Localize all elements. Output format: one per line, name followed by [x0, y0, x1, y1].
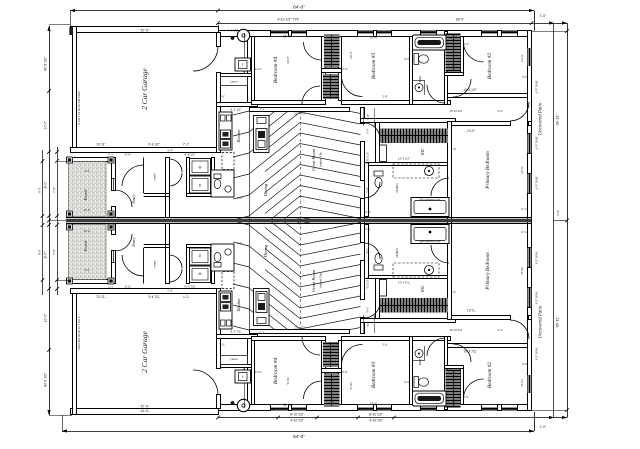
- svg-text:4'-10 1/2": 4'-10 1/2": [365, 152, 369, 164]
- svg-text:Entry: Entry: [131, 194, 136, 204]
- svg-text:Vaulted Clg: Vaulted Clg: [319, 273, 323, 288]
- svg-text:WIC: WIC: [420, 285, 425, 293]
- windows: right wall primary bedroom: [527, 133, 532, 153]
- top dim mid tick: [216, 9, 220, 13]
- wall: bath left: [410, 37, 413, 105]
- windows: top wall: [270, 31, 288, 37]
- wall: bedroom4 left: [252, 37, 255, 105]
- svg-text:Porch: Porch: [83, 240, 88, 253]
- svg-text:Uncovered Patio: Uncovered Patio: [539, 102, 544, 135]
- dryer: [190, 176, 211, 193]
- svg-text:6'-0" 5040: 6'-0" 5040: [535, 291, 539, 304]
- svg-text:9'-2 1/2": 9'-2 1/2": [231, 107, 242, 111]
- door arc: coats closet: [122, 165, 144, 186]
- svg-text:2 Car Garage: 2 Car Garage: [140, 331, 149, 373]
- wall: primary bedroom top: [449, 122, 511, 126]
- refrigerator dashed: [222, 153, 234, 170]
- svg-text:2'-8": 2'-8": [365, 187, 369, 193]
- wall: great room right lower: [361, 199, 365, 220]
- bottom dimension line 64ft: [62, 431, 534, 433]
- svg-text:1'-0": 1'-0": [540, 425, 546, 429]
- wall: great room top: [250, 108, 350, 112]
- wall: laundry bottom: [187, 194, 215, 197]
- svg-text:10'-11": 10'-11": [96, 143, 106, 147]
- svg-text:12'-0": 12'-0": [520, 166, 524, 174]
- svg-text:Dining: Dining: [263, 183, 268, 197]
- svg-text:2'-6": 2'-6": [342, 67, 348, 71]
- svg-text:6'-0" 5040: 6'-0" 5040: [535, 347, 539, 360]
- svg-text:8'-10 1/2": 8'-10 1/2": [369, 412, 382, 416]
- svg-text:3'-1": 3'-1": [259, 107, 265, 111]
- door arc: bedroom4 entry: [302, 86, 320, 104]
- wall: hall north (bed3-bath-bed2 bottom): [342, 101, 451, 105]
- svg-text:Uncovered Patio: Uncovered Patio: [539, 305, 544, 338]
- svg-text:57'-0": 57'-0": [141, 28, 150, 32]
- primary shower unit: [411, 198, 449, 217]
- porch post bottom-right: [108, 211, 114, 217]
- svg-text:Bath: Bath: [418, 75, 422, 82]
- svg-text:10'-4": 10'-4": [349, 51, 353, 59]
- svg-text:1'-0": 1'-0": [451, 147, 457, 151]
- svg-text:6'-0" 5040: 6'-0" 5040: [535, 80, 539, 93]
- svg-text:Entry: Entry: [131, 237, 136, 247]
- kitchen counter left with sink: [219, 112, 232, 150]
- wall: bath/closet divider: [445, 32, 448, 105]
- door arc: hall bath: [427, 85, 445, 103]
- svg-text:5'-4": 5'-4": [237, 196, 243, 200]
- svg-text:64'-0": 64'-0": [293, 434, 305, 439]
- svg-text:40'-5 1/2": 40'-5 1/2": [44, 56, 48, 71]
- porch post top-left: [67, 157, 73, 163]
- svg-text:4'-0": 4'-0": [556, 210, 560, 216]
- svg-text:3'-0": 3'-0": [366, 114, 370, 120]
- party wall between units: [66, 219, 532, 223]
- svg-text:40'-5 1/2": 40'-5 1/2": [44, 372, 48, 387]
- door arc: primary bath inner: [431, 178, 449, 196]
- wall: porch/entry divider upper: [112, 158, 116, 191]
- svg-text:Bedroom #3: Bedroom #3: [371, 53, 377, 80]
- right dimension line outer: [567, 23, 569, 418]
- svg-text:10'-0": 10'-0": [44, 120, 48, 129]
- svg-text:Bedroom #2: Bedroom #2: [487, 362, 493, 389]
- svg-text:2'-8": 2'-8": [382, 95, 388, 99]
- wall: laundry right: [212, 158, 215, 197]
- porch post bottom-left: [67, 211, 73, 217]
- closet rod hatch: bedroom4 closet: [324, 35, 340, 68]
- svg-text:8'-0": 8'-0": [38, 249, 42, 255]
- wall: linen closet: [221, 77, 248, 86]
- svg-text:2'-0": 2'-0": [219, 95, 225, 99]
- svg-text:16'-10 1/2": 16'-10 1/2": [449, 109, 462, 113]
- left dimension line outer: [49, 26, 51, 415]
- svg-text:Kitchen: Kitchen: [236, 298, 241, 312]
- svg-text:18'-0": 18'-0": [456, 18, 465, 22]
- svg-text:3'-4 1/2": 3'-4 1/2": [148, 143, 160, 147]
- great room floor/ceiling hatch: [233, 60, 361, 284]
- door arc: entry front door: [115, 190, 132, 207]
- wall: bed2 closet bottom: [445, 73, 464, 76]
- wall: building right exterior: [528, 31, 532, 221]
- water heater: [237, 29, 249, 41]
- porch slab with concrete stipple: [69, 162, 107, 217]
- svg-text:2'-6": 2'-6": [365, 128, 369, 134]
- svg-text:21'-4 1/2": 21'-4 1/2": [294, 112, 306, 116]
- mech dim witness line: [244, 33, 246, 73]
- svg-text:Kitchen: Kitchen: [236, 129, 241, 143]
- svg-text:39'-11": 39'-11": [556, 316, 560, 328]
- wall: mech closet bottom: [221, 74, 252, 77]
- svg-text:7'-1": 7'-1": [183, 143, 189, 147]
- wall: bedroom4 bottom: [252, 101, 326, 105]
- svg-text:WIC: WIC: [420, 148, 425, 156]
- left dimension line inner (porch): [57, 147, 59, 295]
- entry sidelight window: [113, 178, 115, 190]
- svg-text:6'-0" 5040: 6'-0" 5040: [535, 136, 539, 149]
- svg-text:10'-0": 10'-0": [44, 313, 48, 322]
- svg-text:39'-11": 39'-11": [556, 114, 560, 126]
- door arc: garage to mech hall: [193, 46, 218, 71]
- top secondary dimension line: [218, 23, 567, 25]
- wall: garage right upper: [217, 33, 221, 47]
- door arc: bedroom4 closet: [304, 42, 322, 60]
- svg-text:10'-0": 10'-0": [286, 56, 290, 64]
- svg-text:8'-0": 8'-0": [44, 251, 48, 259]
- wall: laundry left: [187, 158, 190, 197]
- svg-text:4'-10 1/2": 4'-10 1/2": [369, 418, 382, 422]
- svg-text:Porch: Porch: [83, 189, 88, 202]
- wic dresser: [380, 145, 387, 162]
- svg-text:8'-0": 8'-0": [44, 181, 48, 189]
- svg-text:Bedroom #2: Bedroom #2: [487, 53, 493, 80]
- svg-text:3'-4": 3'-4": [463, 42, 469, 46]
- svg-text:Bedroom #4: Bedroom #4: [273, 358, 279, 385]
- svg-text:Dining: Dining: [263, 244, 268, 258]
- svg-text:8'-0": 8'-0": [38, 187, 42, 193]
- wall: bedroom-wing top exterior: [219, 31, 532, 37]
- svg-text:Vaulted Clg: Vaulted Clg: [319, 152, 323, 167]
- door arc: bedroom3 closet: [342, 76, 363, 97]
- svg-text:1'-4": 1'-4": [167, 149, 173, 153]
- svg-text:57'-0": 57'-0": [141, 405, 150, 409]
- svg-text:Bedroom #4: Bedroom #4: [273, 57, 279, 84]
- garage top-left corner post: [69, 27, 73, 35]
- wall: porch top: [67, 158, 116, 162]
- powder room walls: [211, 170, 234, 197]
- wall: closet column left: [322, 37, 326, 101]
- wall: coats closet partitions: [143, 158, 145, 194]
- svg-text:4'-0 1/2": 4'-0 1/2": [228, 29, 238, 33]
- svg-text:coats: coats: [153, 173, 157, 181]
- wall: entry east: [166, 158, 170, 218]
- door arc: bedroom2 closet: [464, 44, 484, 62]
- svg-text:10'-4 1/2": 10'-4 1/2": [463, 88, 476, 92]
- svg-text:6'-0" 5040: 6'-0" 5040: [535, 251, 539, 264]
- wall: bed2 closet right: [461, 37, 464, 76]
- svg-text:4'-4": 4'-4": [497, 109, 503, 113]
- closet rod hatch: bedroom3 closet: [323, 74, 339, 99]
- wall: closet divider: [322, 69, 342, 73]
- svg-text:Bath: Bath: [418, 358, 422, 365]
- wall: great room right upper: [361, 108, 365, 124]
- door arc: patio exit: [510, 102, 529, 121]
- wall: wic left: [376, 123, 380, 166]
- svg-text:6'-8 1/2": 6'-8 1/2": [185, 152, 196, 156]
- hall bath sink: [415, 84, 423, 92]
- porch post top-right: [108, 157, 114, 163]
- bottom secondary dimension line: [218, 417, 567, 419]
- wall: garage left exterior: [73, 27, 77, 153]
- svg-text:4 7/8 x 11 GLULAM HDR: 4 7/8 x 11 GLULAM HDR: [77, 90, 81, 124]
- powder sink: [225, 186, 231, 192]
- svg-text:64'-0": 64'-0": [293, 5, 305, 10]
- svg-text:coats: coats: [153, 260, 157, 268]
- wall: garage right lower: [217, 73, 221, 153]
- svg-text:7'-0": 7'-0": [52, 249, 56, 255]
- wall: garage bottom: [71, 148, 221, 153]
- primary toilet: [374, 171, 383, 176]
- svg-text:M.Bath: M.Bath: [395, 248, 399, 259]
- wall: wic/primary-bed divider: [448, 122, 452, 221]
- svg-text:5'-1": 5'-1": [108, 152, 114, 156]
- closet rod hatch: wic double rod: [379, 129, 448, 144]
- svg-text:7'-0": 7'-0": [52, 187, 56, 193]
- svg-text:12'-6": 12'-6": [83, 208, 90, 212]
- svg-text:6'-0" 5040: 6'-0" 5040: [535, 176, 539, 189]
- svg-text:5'-0": 5'-0": [404, 57, 410, 61]
- hall toilet: [414, 54, 419, 65]
- svg-text:Primary Bedroom: Primary Bedroom: [485, 252, 491, 291]
- svg-text:11'-0": 11'-0": [255, 67, 262, 71]
- svg-text:10'-0": 10'-0": [370, 36, 378, 40]
- kitchen island with range: [254, 116, 270, 153]
- svg-text:13'-0": 13'-0": [520, 54, 524, 62]
- svg-text:5'-6": 5'-6": [522, 75, 528, 79]
- furnace: [235, 58, 251, 71]
- wall: corridor south / wic top: [361, 119, 456, 123]
- wall: primary bath left: [365, 163, 369, 217]
- svg-text:4'-0": 4'-0": [84, 169, 90, 173]
- svg-text:16'-0": 16'-0": [283, 35, 291, 39]
- svg-text:11'-4 1/2": 11'-4 1/2": [398, 157, 410, 161]
- svg-text:4'-10 1/2" TYP: 4'-10 1/2" TYP: [277, 18, 300, 22]
- svg-text:8'-10 1/2": 8'-10 1/2": [290, 412, 303, 416]
- svg-text:4'-10 1/2": 4'-10 1/2": [290, 418, 303, 422]
- wall: primary bedroom top right of patio door: [529, 122, 532, 126]
- door arc: laundry bifold upper: [169, 159, 182, 172]
- svg-text:Linen: Linen: [230, 79, 238, 83]
- wall: hall bottom / kitchen top: [217, 103, 258, 107]
- svg-text:Great Room: Great Room: [311, 269, 316, 292]
- wall: garage top exterior: [71, 27, 219, 33]
- hall bath counter line: [413, 80, 425, 82]
- washer: [190, 159, 211, 176]
- svg-text:5'-0": 5'-0": [125, 152, 131, 156]
- left dimension line far-outer: [42, 150, 44, 295]
- svg-text:Fbg Shower Unit: Fbg Shower Unit: [420, 197, 441, 201]
- wall: wic bottom: [365, 163, 452, 166]
- window: bedroom2 right wall: [527, 48, 532, 66]
- wall: mech closet right: [248, 37, 252, 107]
- svg-text:Great Room: Great Room: [311, 148, 316, 171]
- svg-text:Primary Bedroom: Primary Bedroom: [485, 151, 491, 190]
- svg-text:9'-1": 9'-1": [521, 207, 527, 211]
- powder toilet: [214, 174, 221, 179]
- smoke detector mark: [231, 36, 235, 40]
- passage dim witness: [363, 108, 365, 126]
- hall bathtub: [413, 35, 447, 50]
- wall: great room right mid: [361, 142, 365, 181]
- svg-text:2 Car Garage: 2 Car Garage: [140, 68, 149, 110]
- svg-text:1'-0": 1'-0": [540, 14, 546, 18]
- door arc: laundry bifold lower: [169, 173, 182, 186]
- door arc: bedroom2 entry: [453, 79, 471, 97]
- svg-text:Bedroom #3: Bedroom #3: [371, 362, 377, 389]
- wall: closet column right: [339, 37, 342, 101]
- primary vanity dashed with sink: [393, 164, 439, 178]
- right patio edge line: [553, 23, 555, 418]
- top dimension line 64ft: [70, 10, 534, 12]
- wall: bedroom2 bottom: [448, 94, 532, 98]
- svg-text:2'-4": 2'-4": [332, 95, 338, 99]
- svg-text:13'-0": 13'-0": [467, 129, 475, 133]
- wall: porch/entry divider lower: [112, 207, 116, 218]
- door arc: primary bath hall: [364, 182, 380, 198]
- svg-text:2'-8": 2'-8": [365, 210, 371, 214]
- door arc: wic: [364, 123, 380, 139]
- svg-text:M.Bath: M.Bath: [395, 183, 399, 194]
- closet rod hatch: bedroom2 closet: [446, 34, 461, 72]
